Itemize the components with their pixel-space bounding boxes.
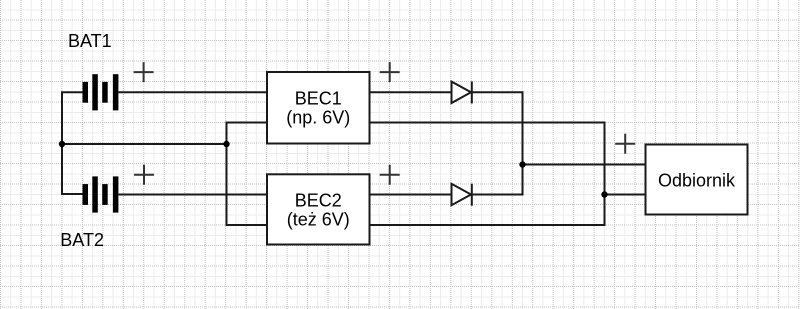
box Odbiornik bbox=[646, 145, 748, 215]
wire battery1 to BEC1 bbox=[118, 91, 267, 93]
wire BEC2 output to diode D2 bbox=[370, 194, 452, 196]
wire node A to node B bbox=[62, 143, 227, 145]
wire node C to Odbiornik bbox=[523, 164, 646, 166]
box BEC2 bbox=[267, 174, 370, 244]
diode D2 bbox=[452, 184, 472, 206]
svg-text:BEC1: BEC1 bbox=[295, 89, 342, 109]
battery BAT1 bbox=[83, 74, 119, 110]
plus sign at BEC1 output bbox=[380, 62, 400, 82]
wire node B up to BEC1 lower input and down to BEC2 lower input bbox=[227, 123, 268, 226]
junction node C bbox=[519, 161, 525, 167]
plus sign at BAT2 bbox=[134, 165, 154, 185]
diode D1 bbox=[452, 82, 472, 104]
junction node B bbox=[223, 141, 229, 147]
wire battery2 to BEC2 bbox=[118, 194, 267, 196]
battery BAT2 bbox=[83, 176, 119, 212]
wire BAT1 left down to node A and down to BAT2 bbox=[62, 92, 83, 194]
wire BEC1 output to diode D1 bbox=[370, 91, 452, 93]
wire node D to Odbiornik lower input bbox=[605, 194, 646, 196]
svg-text:BAT2: BAT2 bbox=[60, 230, 104, 250]
svg-text:Odbiornik: Odbiornik bbox=[658, 171, 736, 191]
plus sign at Odbiornik input bbox=[615, 134, 635, 154]
wire diode D1 to node C bbox=[472, 92, 523, 164]
wire BEC1 lower output to vertical bus bbox=[370, 123, 605, 226]
svg-text:(np. 6V): (np. 6V) bbox=[286, 108, 350, 128]
wire diode D2 up to node C bbox=[472, 165, 523, 195]
box BEC1 bbox=[267, 72, 370, 144]
junction node D bbox=[601, 191, 607, 197]
plus sign at BAT1 bbox=[134, 62, 154, 82]
svg-text:BEC2: BEC2 bbox=[295, 191, 342, 211]
svg-text:BAT1: BAT1 bbox=[68, 31, 112, 51]
svg-text:(też 6V): (też 6V) bbox=[287, 210, 350, 230]
junction node A bbox=[59, 141, 65, 147]
plus sign at BEC2 output bbox=[380, 165, 400, 185]
